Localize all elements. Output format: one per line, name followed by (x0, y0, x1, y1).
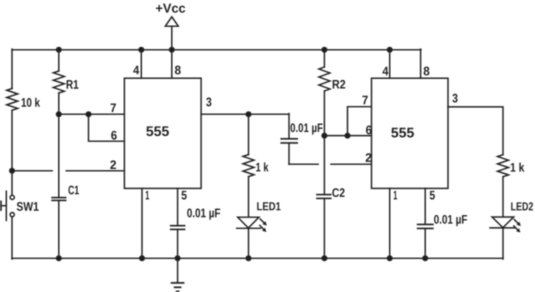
label 1 k (LED2 resistor) (511, 163, 525, 172)
U1 pin 3 label (206, 98, 211, 107)
wire LED1 branch upper (248, 114, 250, 154)
label U2 555 (391, 128, 414, 138)
wire coupling cap down (288, 144, 290, 165)
U2 pin 4 label (383, 67, 389, 76)
wire R2 to C2 (323, 91, 325, 194)
wire LED2 to bottom rail (502, 228, 504, 259)
wire left branch upper (11, 49, 13, 88)
wire top +V rail (12, 49, 421, 51)
U1 pin 8 label (175, 66, 181, 75)
capacitor C1 (52, 197, 66, 199)
switch SW1 (10, 195, 14, 199)
U2 pin 5 label (430, 191, 435, 200)
capacitor 0.01uF coupling (281, 138, 297, 140)
label C1 (68, 186, 79, 195)
label 0.01 µF (coupling cap) (291, 123, 323, 134)
wire pin 6 row of U2 (324, 135, 371, 137)
node R1 at +V rail (56, 47, 62, 53)
wire U2 pin 1 to bottom rail (389, 188, 391, 258)
U1 pin 2 label (110, 160, 116, 169)
LED LED2 (492, 217, 514, 228)
wire R2 branch from top rail (323, 50, 325, 67)
wire pin 7 row (59, 113, 125, 115)
wire U2 pin 5 upper (424, 188, 426, 223)
wire pin3 row corner down (288, 114, 290, 139)
node R1 / U1 pin7 (56, 111, 62, 117)
U2 pin 1 label (394, 191, 397, 200)
wire pin 6 link of U1 (89, 114, 125, 141)
wire 1k to LED2 (502, 177, 504, 217)
node ground symbol at rail (175, 255, 181, 261)
resistor 10k (7, 88, 18, 110)
wire 10k to SW1 (11, 110, 13, 195)
node U2 pin7 tap (345, 133, 351, 139)
label +Vcc (156, 4, 185, 13)
wire pin 7 link of U2 (348, 107, 372, 136)
U2 pin 7 label (362, 96, 367, 105)
wire U2 pin 4 to rail (389, 50, 391, 78)
node +Vcc / U1 pin8 at rail (169, 47, 175, 53)
wire U1 pin 5 upper (177, 188, 179, 225)
capacitor 0.01uF at U2 pin 5 (418, 223, 433, 225)
wire C1 to bottom rail (58, 201, 60, 258)
node U2 pin1 at ground rail (387, 255, 393, 261)
wire U1 pin 5 cap to rail (177, 230, 179, 258)
U2 pin 2 label (366, 153, 372, 162)
wire R1 branch from top rail (58, 50, 60, 71)
timer IC U1 555 (124, 78, 201, 188)
wire U1 pin 1 to bottom rail (141, 188, 143, 258)
label U1 555 (146, 126, 169, 136)
wire U1 pin 3 output row (201, 113, 289, 115)
U1 pin 5 label (182, 191, 187, 200)
U2 pin 8 label (424, 67, 430, 76)
resistor 1k (LED2) (498, 155, 509, 177)
node U1 pin1 at ground rail (139, 255, 145, 261)
resistor R2 (319, 67, 330, 91)
capacitor C2 (317, 194, 331, 196)
U2 pin 6 label (366, 126, 372, 135)
wire U1 pin 4 to rail (140, 50, 142, 78)
label LED1 (257, 202, 280, 210)
wire U2 pin 3 output row (448, 107, 503, 155)
node U1 pin4 at rail (138, 47, 144, 53)
LED LED1 (238, 217, 259, 228)
node LED1 at ground rail (246, 255, 252, 261)
node U1 pin6 tap (86, 111, 92, 117)
node C1 at ground rail (56, 255, 62, 261)
label LED2 (511, 202, 533, 210)
wire R1 to C1 (58, 93, 60, 197)
label R2 (333, 80, 346, 89)
resistor 1k (LED1) (243, 155, 254, 177)
ground (177, 258, 179, 282)
node C2 at ground rail (321, 255, 327, 261)
wire U2 pin 8 to rail (420, 49, 422, 78)
wire pin 2 row of U1 (12, 170, 52, 172)
wire pin 2 row of U2 (289, 163, 318, 165)
node R2 / U2 pin6 (321, 133, 327, 139)
wire U2 pin 5 cap to rail (424, 229, 426, 258)
label 10 k (22, 98, 40, 107)
label R1 (67, 80, 79, 89)
U1 pin 4 label (133, 66, 139, 75)
label C2 (332, 188, 344, 197)
wire SW1 to bottom rail (11, 217, 13, 259)
label 0.01 µF (U2 pin5 cap) (434, 215, 467, 226)
timer IC U2 555 (372, 78, 449, 188)
wire bottom ground rail (12, 257, 503, 259)
resistor R1 (53, 71, 64, 93)
label 0.01 µF (U1 pin5 cap) (187, 209, 220, 220)
wire U1 pin 8 to rail (171, 50, 173, 78)
U1 pin 1 label (146, 191, 149, 200)
wire 1k to LED1 (248, 177, 250, 218)
node U1 pin3 / LED1 branch (246, 111, 252, 117)
wire C2 to bottom rail (323, 199, 325, 258)
U2 pin 3 label (452, 94, 457, 103)
label SW1 (17, 202, 39, 211)
node SW1 / U1 pin2 (9, 168, 15, 174)
U1 pin 6 label (111, 131, 117, 140)
node R2 at +V rail (321, 47, 327, 53)
wire LED1 to bottom rail (248, 228, 250, 258)
node U2 pin5 at ground rail (422, 255, 428, 261)
node U2 pin4 at rail (387, 47, 393, 53)
capacitor 0.01uF at U1 pin 5 (171, 225, 185, 227)
U1 pin 7 label (111, 103, 116, 112)
label 1 k (LED1 resistor) (256, 162, 268, 171)
